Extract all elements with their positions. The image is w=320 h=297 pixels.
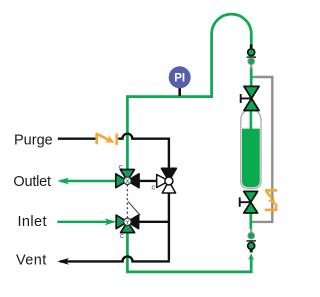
inlet arrow head (right): [105, 218, 117, 225]
valve V1 (cylinder inlet valve): [241, 86, 259, 110]
quick-connect fitting, top (cylinder inlet): [247, 44, 256, 64]
svg-text:1: 1: [118, 179, 121, 185]
svg-text:Outlet: Outlet: [13, 174, 51, 190]
wire: black tee to valve Y right port: [139, 221, 169, 223]
svg-text:C: C: [120, 234, 124, 240]
svg-text:C: C: [119, 165, 123, 171]
vent arrow head (left): [57, 258, 69, 265]
wire: black link valve X right port to valve Z left port: [139, 180, 157, 182]
valve Z (3-way purge/vent, normally closed port): [152, 168, 177, 193]
linkage: diagonal line: [128, 202, 140, 215]
svg-text:Purge: Purge: [14, 133, 53, 149]
wire: black vertical from white valve bottom to vent rail: [168, 193, 170, 261]
wire: gray stem below top fitting: [250, 64, 252, 69]
heat-trace bolt on purge line: [95, 133, 118, 146]
quick-connect fitting, bottom (cylinder outlet): [247, 232, 256, 252]
wire: gray bypass line around cylinder: [252, 77, 272, 222]
wire: green inlet line: [57, 221, 112, 223]
valve X (3-way outlet/purge select): [116, 165, 139, 188]
valve V2 (cylinder outlet valve): [240, 191, 258, 213]
svg-text:X: X: [126, 179, 130, 185]
sample cylinder: [241, 110, 261, 189]
svg-text:Y: Y: [126, 220, 130, 226]
arrow up into bottom fitting: [248, 253, 254, 260]
svg-text:Inlet: Inlet: [18, 214, 47, 230]
valve Y (3-way inlet/vent select): [116, 215, 138, 240]
wire: black purge line (right of bolt) with jump over green, corner down to 3-way valve: [118, 134, 169, 169]
svg-text:C: C: [152, 186, 156, 192]
wire: green stem fitting to top-right valve: [250, 67, 253, 87]
svg-text:Vent: Vent: [16, 252, 47, 268]
svg-text:1: 1: [119, 220, 122, 226]
outlet arrow head (left): [57, 178, 69, 185]
svg-text:3: 3: [127, 228, 130, 234]
wire: green stem below bottom-right valve: [249, 212, 252, 229]
wire: black purge line (left of bolt): [58, 137, 96, 139]
wire: green from valve Y bottom down and right along bottom rail: [127, 233, 251, 272]
wire: green outlet line: [60, 180, 116, 182]
svg-text:3: 3: [126, 171, 129, 177]
svg-text:PI: PI: [174, 73, 185, 85]
heat-trace bolt beside cylinder outlet: [265, 189, 278, 211]
wire: black vent rail with jump over green: [60, 256, 170, 261]
wire: gray stem above bottom fitting: [250, 229, 252, 233]
linkage: dashed line between valve X and valve Y: [126, 185, 128, 218]
instrument PI: [178, 87, 181, 96]
wire: green supply vertical down to valve X: [126, 95, 129, 169]
wire: green gooseneck from PI header over to cylinder top: [127, 14, 251, 96]
